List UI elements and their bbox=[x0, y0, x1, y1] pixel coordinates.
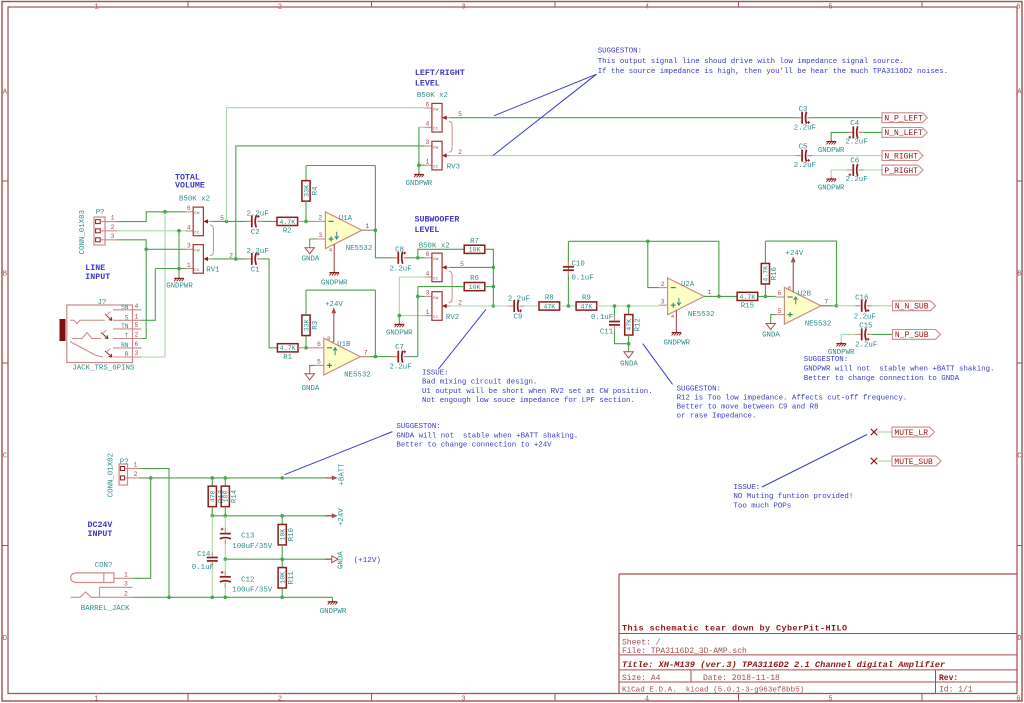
jack J? pins bbox=[113, 303, 142, 358]
wire R8 to R9 bbox=[560, 305, 576, 307]
power +24V at U1B bbox=[331, 307, 336, 313]
svg-text:cc: cc bbox=[194, 268, 200, 273]
capacitor C4 bbox=[849, 126, 858, 138]
bracket RV2 dual gang bbox=[449, 271, 452, 302]
capacitor C10 pin stub bbox=[567, 271, 569, 276]
potentiometer RV3 lower section bbox=[425, 139, 463, 170]
resistor R6 bbox=[464, 275, 485, 291]
svg-text:1: 1 bbox=[708, 289, 712, 296]
svg-text:SUGGESTON:: SUGGESTON: bbox=[677, 386, 721, 394]
wire C6 to gndpwr bbox=[831, 170, 851, 177]
ground GNDPWR at C6 bbox=[826, 177, 836, 181]
wire C4 to N_N_LEFT bbox=[859, 131, 882, 133]
svg-text:SUBWOOFER: SUBWOOFER bbox=[415, 215, 460, 224]
svg-text:5: 5 bbox=[458, 111, 462, 118]
no-connect X at MUTE_LR bbox=[871, 429, 877, 435]
svg-text:NO Muting funtion provided!: NO Muting funtion provided! bbox=[734, 493, 854, 501]
svg-text:4.7K: 4.7K bbox=[763, 266, 770, 282]
capacitor C2 bbox=[252, 215, 260, 227]
wire R14 top wire bbox=[224, 478, 226, 486]
svg-text:2.2uF: 2.2uF bbox=[390, 363, 412, 371]
svg-text:4: 4 bbox=[645, 4, 649, 12]
svg-text:Better to change connection to: Better to change connection to GNDA bbox=[804, 375, 960, 383]
wire R6 left bbox=[418, 286, 464, 288]
svg-text:GNDPWR: GNDPWR bbox=[386, 329, 413, 337]
wire feedback top U2B bbox=[765, 241, 836, 306]
wire C12 top wire bbox=[224, 559, 226, 575]
svg-text:47K: 47K bbox=[543, 303, 555, 310]
svg-text:GNDPWR: GNDPWR bbox=[321, 279, 348, 287]
svg-text:3: 3 bbox=[426, 290, 430, 297]
svg-text:4: 4 bbox=[135, 303, 139, 310]
svg-text:MUTE_SUB: MUTE_SUB bbox=[894, 458, 933, 467]
ground GNDPWR power rail bbox=[328, 600, 338, 604]
hierarchical label N_N_SUB bbox=[893, 301, 936, 312]
junction node AC R14 top bbox=[224, 476, 228, 480]
wire C6 to P_RIGHT bbox=[859, 169, 882, 171]
svg-text:2: 2 bbox=[278, 695, 282, 703]
junction node K RV3 cc bbox=[417, 163, 421, 167]
svg-text:LEVEL: LEVEL bbox=[415, 226, 440, 235]
capacitor C9 bbox=[514, 300, 522, 312]
svg-text:NE5532: NE5532 bbox=[346, 245, 373, 253]
svg-text:U2B: U2B bbox=[798, 290, 812, 298]
wire C9 to R8 bbox=[520, 305, 539, 307]
junction node AF C13 top bbox=[224, 514, 228, 518]
svg-text:6: 6 bbox=[1016, 4, 1020, 12]
svg-text:(+12V): (+12V) bbox=[354, 557, 381, 565]
wire C1 to R1 bbox=[258, 259, 278, 348]
wire RV3 cc to gndpwr bbox=[418, 165, 420, 173]
svg-text:cw: cw bbox=[194, 211, 200, 216]
svg-text:This schematic tear down by Cy: This schematic tear down by CyberPit-HIL… bbox=[622, 624, 848, 634]
wire RV2 pin3 stub wire bbox=[418, 295, 425, 297]
capacitor C2 pin stub bbox=[245, 220, 251, 222]
wire C8 to RV2 cw bbox=[404, 257, 424, 259]
svg-text:100uF/35V: 100uF/35V bbox=[232, 587, 272, 595]
resistor R7 bbox=[464, 238, 485, 254]
ground GNDPWR at RV2 bbox=[395, 323, 405, 327]
bracket RV3 dual gang bbox=[449, 121, 452, 152]
capacitor C8 pin stub bbox=[404, 257, 409, 259]
svg-text:CONN_01X02: CONN_01X02 bbox=[108, 453, 116, 497]
svg-text:R1: R1 bbox=[283, 354, 292, 362]
junction node R C10 branch bbox=[567, 304, 571, 308]
junction node AJ R10 bottom bbox=[280, 557, 284, 561]
wire RV1 pin1 cc bbox=[155, 268, 186, 270]
wire jack R to node A bbox=[142, 212, 166, 357]
junction node AH C14 bottom bbox=[211, 596, 215, 600]
wire R12 bottom bbox=[628, 335, 630, 350]
hierarchical label N_P_SUB bbox=[893, 330, 941, 341]
hierarchical label N_N_LEFT bbox=[882, 128, 927, 139]
svg-text:1: 1 bbox=[426, 159, 430, 166]
svg-text:7: 7 bbox=[364, 349, 368, 356]
wire RV2 cc wire bbox=[399, 276, 424, 278]
wire RV1 wiper5 to C2 bbox=[211, 220, 249, 222]
svg-text:GNDA will not stable when +BA: GNDA will not stable when +BATT shaking. bbox=[396, 432, 578, 440]
svg-text:1: 1 bbox=[365, 223, 369, 230]
svg-text:N_RIGHT: N_RIGHT bbox=[884, 152, 918, 161]
svg-text:R9: R9 bbox=[582, 295, 591, 303]
capacitor C2 pin stub bbox=[257, 220, 262, 222]
svg-text:2.2uF: 2.2uF bbox=[508, 296, 530, 304]
wire pin2 vertical bbox=[648, 241, 659, 287]
svg-text:C11: C11 bbox=[600, 328, 614, 336]
svg-text:R4: R4 bbox=[312, 186, 320, 195]
svg-text:4: 4 bbox=[187, 224, 191, 231]
junction node H U1A out bbox=[374, 228, 378, 232]
svg-text:U1 output will be short when R: U1 output will be short when RV2 set at … bbox=[422, 388, 653, 396]
svg-text:D: D bbox=[1017, 635, 1021, 643]
svg-text:C: C bbox=[3, 453, 7, 461]
svg-text:6: 6 bbox=[426, 101, 430, 108]
svg-text:1: 1 bbox=[111, 215, 115, 222]
junction node AD batt right bbox=[280, 476, 284, 480]
wire U1A output net bbox=[362, 229, 376, 231]
svg-text:33K: 33K bbox=[303, 185, 310, 197]
svg-text:cc: cc bbox=[433, 165, 439, 170]
junction node S C11 branch bbox=[613, 304, 617, 308]
svg-text:B: B bbox=[3, 271, 7, 279]
svg-text:2: 2 bbox=[135, 332, 139, 339]
wire R15 to U2B bbox=[758, 295, 776, 297]
svg-text:NE5532: NE5532 bbox=[344, 371, 371, 379]
svg-text:cw: cw bbox=[433, 108, 439, 113]
wire gnd rail to gndpwr bbox=[332, 597, 334, 600]
capacitor C10 pin stub bbox=[567, 261, 569, 266]
capacitor C6 bbox=[849, 164, 858, 176]
svg-text:2: 2 bbox=[319, 215, 323, 222]
capacitor C13 pin stub bbox=[224, 528, 226, 533]
wire R2 to U1A pin2 bbox=[298, 220, 317, 222]
capacitor C8 pin stub bbox=[392, 257, 398, 259]
capacitor C3 pin stub bbox=[796, 117, 802, 119]
svg-text:Not engough low souce impedanc: Not engough low souce impedance for LPF … bbox=[422, 397, 635, 405]
svg-text:GNDPWR: GNDPWR bbox=[406, 180, 433, 188]
svg-text:2: 2 bbox=[134, 471, 138, 478]
svg-text:File: TPA3116D2_3D-AMP.sch: File: TPA3116D2_3D-AMP.sch bbox=[622, 647, 747, 656]
capacitor C5 pin stub bbox=[807, 155, 812, 157]
wire C13 top wire bbox=[224, 516, 226, 532]
svg-text:KiCad E.D.A. kicad (5.0.1-3-g: KiCad E.D.A. kicad (5.0.1-3-g963ef8bb5) bbox=[622, 686, 804, 694]
capacitor C15 bbox=[862, 328, 870, 340]
wire R4 bottom wire bbox=[305, 201, 307, 221]
svg-text:6: 6 bbox=[778, 290, 782, 297]
svg-text:1: 1 bbox=[187, 262, 191, 269]
svg-text:This output signal line shoud: This output signal line shoud drive with… bbox=[598, 58, 904, 66]
capacitor C9 pin stub bbox=[508, 305, 514, 307]
svg-text:2.2uF: 2.2uF bbox=[247, 210, 269, 218]
svg-text:3: 3 bbox=[461, 695, 465, 703]
capacitor C16 pin stub bbox=[855, 305, 861, 307]
capacitor C1 bbox=[252, 253, 260, 265]
capacitor C4 pin stub bbox=[847, 131, 853, 133]
ground GNDPWR at C4 bbox=[826, 140, 836, 144]
junction node AM P1 gnd bbox=[167, 596, 171, 600]
svg-text:10K: 10K bbox=[280, 572, 287, 584]
junction node I R1/R3/U1B bbox=[304, 346, 308, 350]
capacitor C12 pin stub bbox=[224, 583, 226, 588]
capacitor C3 pin stub bbox=[807, 117, 812, 119]
svg-text:6: 6 bbox=[426, 251, 430, 258]
svg-text:R8: R8 bbox=[545, 295, 554, 303]
wire U1A out up bbox=[374, 166, 376, 231]
svg-text:3: 3 bbox=[661, 298, 665, 305]
wire R10 bottom wire bbox=[281, 545, 283, 559]
note suggestion output drive bbox=[598, 48, 948, 76]
pointer line from R12 note bbox=[643, 344, 673, 385]
capacitor C14 bbox=[207, 558, 218, 561]
svg-text:N_N_LEFT: N_N_LEFT bbox=[884, 129, 923, 138]
wire U2A out up bbox=[718, 241, 720, 296]
wire R6 right bbox=[485, 286, 494, 288]
capacitor C11 pin stub bbox=[614, 316, 616, 321]
svg-text:cw: cw bbox=[433, 145, 439, 150]
pointer line from GNDA note bbox=[285, 432, 393, 475]
resistor R14 bbox=[221, 486, 239, 507]
wire U1B out up bbox=[374, 290, 376, 357]
svg-text:CON?: CON? bbox=[95, 562, 113, 570]
svg-text:2.2uF: 2.2uF bbox=[390, 266, 412, 274]
svg-text:SUGGESTON:: SUGGESTON: bbox=[598, 48, 642, 56]
svg-text:GNDA: GNDA bbox=[302, 385, 320, 393]
svg-text:2: 2 bbox=[111, 224, 115, 231]
wire R12 top bbox=[628, 306, 630, 315]
capacitor C15 pin stub bbox=[855, 333, 861, 335]
wire R14 bottom wire bbox=[224, 507, 226, 516]
op-amp U1B bbox=[315, 335, 369, 375]
wire U2A out bbox=[704, 295, 737, 297]
svg-text:R6: R6 bbox=[470, 275, 479, 283]
svg-text:GNDA: GNDA bbox=[762, 331, 780, 339]
wire C13 bottom wire bbox=[224, 539, 226, 559]
svg-text:1: 1 bbox=[426, 309, 430, 316]
no-connect X at MUTE_SUB bbox=[871, 458, 877, 464]
svg-text:R7: R7 bbox=[470, 238, 479, 246]
junction node B cc net bbox=[177, 229, 181, 233]
ground GNDPWR at C15 bbox=[836, 342, 846, 346]
svg-text:10K: 10K bbox=[469, 284, 481, 291]
svg-text:R12 is Too low impedance. Affe: R12 is Too low impedance. Affects cut-of… bbox=[677, 395, 908, 403]
junction node AA batt in bbox=[149, 476, 153, 480]
ground GNDPWR at RV1 bbox=[174, 277, 184, 281]
wire C4 to gndpwr bbox=[831, 132, 851, 140]
wire RV2 cc to gndpwr bbox=[398, 316, 400, 323]
resistor R2 bbox=[277, 217, 298, 235]
wire RV3 cc vertical bbox=[419, 127, 425, 165]
wire RV3 cc net bbox=[419, 126, 425, 128]
jack J? JACK_TRS_6PINS body bbox=[60, 305, 133, 363]
potentiometer RV2 lower section bbox=[425, 290, 463, 321]
svg-text:R12: R12 bbox=[635, 318, 643, 331]
wire C3 to N_P_LEFT bbox=[808, 117, 882, 119]
wire U1B out bbox=[360, 356, 375, 358]
capacitor C5 pin stub bbox=[796, 155, 802, 157]
wire +BATT rail bbox=[139, 477, 332, 479]
note issue muting bbox=[734, 484, 854, 510]
svg-text:6: 6 bbox=[317, 341, 321, 348]
svg-text:S: S bbox=[125, 315, 129, 322]
svg-text:RV2: RV2 bbox=[446, 314, 459, 322]
ground GNDPWR at U1A bbox=[329, 271, 339, 275]
svg-text:4.7K: 4.7K bbox=[279, 219, 295, 226]
resistor R3 bbox=[302, 315, 320, 336]
svg-text:D: D bbox=[3, 635, 7, 643]
svg-text:+BATT: +BATT bbox=[339, 463, 347, 486]
U1A V- power line bbox=[333, 245, 335, 272]
svg-text:5: 5 bbox=[135, 322, 139, 329]
svg-text:C: C bbox=[1017, 453, 1021, 461]
wire C15 to N_P_SUB bbox=[868, 333, 893, 335]
capacitor C14 pin stub bbox=[211, 552, 213, 557]
wire RV3 wiper2 long wire bbox=[450, 155, 801, 157]
wire C5 to N_RIGHT bbox=[808, 155, 882, 157]
svg-text:4: 4 bbox=[645, 695, 649, 703]
svg-text:ISSUE:: ISSUE: bbox=[422, 370, 449, 378]
svg-text:U1A: U1A bbox=[339, 215, 353, 223]
wire jack S vertical bbox=[142, 269, 156, 321]
wire R16 bottom wire bbox=[764, 284, 766, 296]
junction node C cc pin1 bbox=[177, 267, 181, 271]
ground GNDPWR at U2A bbox=[672, 331, 682, 335]
bracket RV1 dual gang bbox=[210, 225, 213, 255]
junction node M R7/wiper5 bbox=[492, 266, 496, 270]
svg-text:C6: C6 bbox=[850, 158, 859, 166]
svg-text:cc: cc bbox=[433, 276, 439, 281]
hierarchical label P_RIGHT bbox=[882, 165, 923, 176]
svg-text:N_P_LEFT: N_P_LEFT bbox=[884, 115, 923, 124]
svg-text:BARREL_JACK: BARREL_JACK bbox=[81, 605, 130, 613]
wire U2B out to C16 bbox=[837, 305, 860, 307]
wire R1 to U1B pin6 bbox=[298, 347, 315, 349]
wire R16 top wire bbox=[764, 241, 766, 263]
wire P pin1 down to gnd rail bbox=[139, 469, 169, 598]
svg-text:R10: R10 bbox=[288, 528, 296, 541]
wire U1B out to C7 bbox=[375, 356, 395, 358]
svg-text:INPUT: INPUT bbox=[85, 273, 110, 282]
svg-text:R15: R15 bbox=[741, 303, 754, 311]
ground GNDA at mixer bbox=[624, 350, 633, 358]
wire vertical to RV3 lower cw bbox=[236, 146, 425, 259]
junction node Y U2B out bbox=[835, 304, 839, 308]
svg-text:2: 2 bbox=[278, 4, 282, 12]
junction node AB R13 top bbox=[211, 476, 215, 480]
svg-text:RV3: RV3 bbox=[447, 164, 460, 172]
svg-text:Size: A4: Size: A4 bbox=[622, 674, 661, 683]
svg-text:3: 3 bbox=[426, 139, 430, 146]
svg-text:SN: SN bbox=[121, 304, 129, 311]
ground GNDA at U2B bbox=[766, 322, 775, 330]
svg-text:C9: C9 bbox=[514, 313, 523, 321]
svg-text:4: 4 bbox=[426, 270, 430, 277]
junction node Q mix node bbox=[492, 304, 496, 308]
wire feedback top U2A bbox=[568, 240, 719, 242]
resistor R16 bbox=[761, 263, 779, 284]
wire U1B pin5 to GNDA bbox=[310, 365, 315, 372]
svg-text:6: 6 bbox=[135, 341, 139, 348]
svg-text:GNDPWR will not stable when +: GNDPWR will not stable when +BATT shakin… bbox=[804, 366, 995, 374]
capacitor C10 bbox=[563, 267, 574, 270]
capacitor C6 pin stub bbox=[847, 169, 853, 171]
wire R3 top wire bbox=[305, 290, 307, 315]
capacitor C4 pin stub bbox=[859, 131, 864, 133]
capacitor C7 bbox=[398, 350, 406, 362]
svg-text:RN: RN bbox=[121, 342, 129, 349]
connector P? CONN_01X03 bbox=[94, 217, 117, 245]
svg-text:Title: XH-M139 (ver.3) TPA3116: Title: XH-M139 (ver.3) TPA3116D2 2.1 Cha… bbox=[622, 660, 946, 670]
wire +24V rail bbox=[212, 515, 331, 517]
svg-text:MUTE_LR: MUTE_LR bbox=[894, 429, 928, 438]
svg-text:8: 8 bbox=[788, 284, 791, 291]
wire R11 bottom wire bbox=[281, 588, 283, 597]
wire P2 pin2 to RV1 cc bbox=[117, 230, 186, 232]
connector P? CONN_01X02 bbox=[119, 464, 139, 485]
wire GNDA +12V rail bbox=[225, 558, 331, 560]
svg-text:GNDPWR: GNDPWR bbox=[320, 608, 347, 616]
svg-text:5: 5 bbox=[317, 359, 321, 366]
svg-text:C3: C3 bbox=[799, 106, 808, 114]
hierarchical label MUTE_SUB bbox=[892, 456, 941, 467]
svg-text:1: 1 bbox=[135, 313, 139, 320]
svg-text:JACK_TRS_6PINS: JACK_TRS_6PINS bbox=[72, 364, 135, 372]
wire node L up to R7 bbox=[418, 249, 464, 257]
junction node G R2/R4/U1A bbox=[304, 220, 308, 224]
junction node AL R11 bottom bbox=[280, 596, 284, 600]
wire C12 bottom wire bbox=[224, 583, 226, 598]
svg-text:GNDPWR: GNDPWR bbox=[663, 340, 690, 348]
junction node N R6 right bbox=[492, 285, 496, 289]
svg-text:R2: R2 bbox=[283, 228, 292, 236]
svg-text:P?: P? bbox=[96, 209, 105, 217]
svg-text:R16: R16 bbox=[771, 267, 779, 280]
junction node T R12 branch bbox=[627, 304, 631, 308]
svg-text:5: 5 bbox=[220, 215, 224, 222]
svg-text:2.2uF: 2.2uF bbox=[846, 176, 868, 184]
capacitor C13 pin stub bbox=[224, 540, 226, 545]
wire RV2 wiper2 wire bbox=[450, 305, 493, 307]
svg-text:B: B bbox=[1017, 271, 1021, 279]
svg-text:0.1uF: 0.1uF bbox=[572, 274, 594, 282]
resistor R15 bbox=[737, 292, 758, 310]
capacitor C7 pin stub bbox=[392, 356, 398, 358]
wire C16 to N_N_SUB bbox=[868, 305, 893, 307]
wire R10 top wire bbox=[281, 516, 283, 525]
svg-text:C7: C7 bbox=[395, 344, 404, 352]
wire U2B pin5 to GNDA bbox=[771, 315, 776, 322]
resistor R9 bbox=[576, 295, 597, 311]
svg-text:T: T bbox=[125, 333, 129, 340]
wire R4 top wire bbox=[305, 166, 307, 181]
wire P3 pin3 to RV1 lower cw bbox=[117, 240, 186, 250]
svg-text:C5: C5 bbox=[799, 143, 808, 151]
svg-text:GNDPWR: GNDPWR bbox=[818, 147, 845, 155]
wire vertical to RV3 cw bbox=[227, 108, 425, 222]
svg-text:N_P_SUB: N_P_SUB bbox=[895, 331, 929, 340]
svg-text:LEFT/RIGHT: LEFT/RIGHT bbox=[415, 68, 465, 78]
potentiometer RV1 lower section bbox=[186, 243, 233, 274]
U2A V- power line bbox=[675, 311, 677, 331]
svg-text:C14: C14 bbox=[197, 551, 211, 559]
svg-text:RV1: RV1 bbox=[206, 266, 220, 274]
capacitor C11 pin stub bbox=[614, 326, 616, 331]
svg-text:10K: 10K bbox=[469, 247, 481, 254]
wire C11 bottom bbox=[615, 326, 629, 344]
svg-text:3: 3 bbox=[187, 243, 191, 250]
capacitor C8 bbox=[398, 252, 406, 264]
capacitor C11 bbox=[609, 322, 620, 325]
capacitor C13 bbox=[220, 528, 231, 539]
